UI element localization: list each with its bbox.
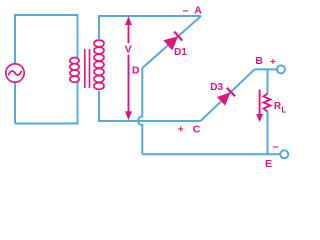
wire secondary bottom to node C — [99, 91, 201, 121]
transformer core — [85, 49, 90, 88]
wire diagonal D1 branch — [142, 16, 201, 68]
diode D1 — [163, 32, 182, 51]
arrow V (secondary voltage, double-headed) — [125, 16, 132, 120]
arrow load current — [256, 90, 263, 123]
svg-text:–: – — [272, 141, 278, 153]
transformer primary coil — [70, 58, 79, 83]
resistor RL zigzag — [264, 94, 271, 112]
svg-text:A: A — [194, 5, 202, 17]
wire primary loop — [15, 15, 78, 124]
terminal node E — [280, 150, 288, 158]
svg-text:+: + — [178, 125, 184, 136]
wire RL branch upper — [267, 69, 269, 93]
svg-text:C: C — [193, 124, 201, 136]
svg-text:B: B — [255, 55, 263, 67]
wire secondary top to node A — [99, 16, 201, 40]
svg-text:V: V — [125, 44, 132, 56]
svg-text:–: – — [182, 5, 188, 17]
svg-text:D: D — [132, 64, 140, 76]
svg-text:L: L — [281, 105, 286, 114]
wire bottom to node E — [142, 153, 280, 155]
terminal node B — [277, 65, 285, 73]
ac source G1 — [6, 64, 24, 82]
svg-text:+: + — [270, 57, 276, 68]
wire node D vertical with hop — [138, 68, 142, 154]
svg-text:E: E — [265, 158, 272, 170]
svg-text:D3: D3 — [210, 82, 223, 93]
wire RL branch lower — [267, 112, 269, 155]
transformer secondary coil — [94, 40, 104, 89]
wire diagonal D3 branch — [201, 69, 255, 121]
svg-text:D1: D1 — [174, 47, 187, 58]
wire node B horizontal — [255, 68, 278, 70]
diode D3 — [217, 88, 235, 106]
